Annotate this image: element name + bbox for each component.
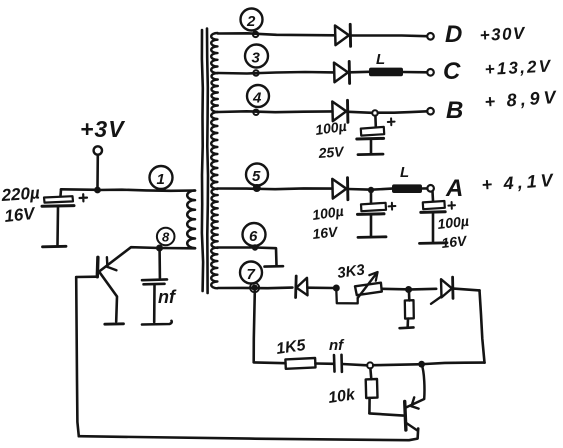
transformer T1 secondary winding [211, 33, 217, 73]
terminal A [427, 185, 434, 192]
wire node to diode D6 [412, 287, 436, 290]
inductor L (row A) [392, 184, 422, 193]
svg-text:1K5: 1K5 [275, 337, 308, 358]
pin label 8 [157, 228, 175, 246]
junction node +3V [94, 187, 101, 194]
svg-text:D: D [445, 21, 462, 48]
diode (row C) [334, 63, 348, 83]
resistor 10k lead [369, 369, 372, 380]
terminal C [427, 69, 434, 76]
svg-text:+ 8,9V: + 8,9V [484, 87, 560, 112]
pin label 3 [245, 45, 268, 68]
wire nf cap to ground [153, 285, 156, 322]
wire pin6 stub [218, 248, 277, 266]
junction pot left [333, 285, 340, 292]
diode D6 [441, 279, 452, 297]
resistor 10k body [366, 379, 378, 398]
pin label 6 [243, 223, 266, 246]
node B junction [372, 110, 378, 116]
ground (cap A1) [358, 235, 386, 238]
transformer T1 core [202, 30, 203, 291]
diode D5 (cathode left) [294, 276, 297, 298]
svg-text:16V: 16V [3, 204, 37, 226]
wire pin2 to diode D [218, 33, 335, 35]
capacitor A2 plate- [421, 210, 445, 214]
svg-text:100µ: 100µ [314, 118, 347, 138]
wire inductor C to terminal [403, 71, 427, 74]
transformer T1 primary winding [187, 191, 195, 249]
pin 5 tap dot [254, 185, 260, 191]
svg-text:3: 3 [252, 50, 261, 67]
wire cap A1 to ground [370, 215, 373, 236]
svg-text:220µ: 220µ [0, 183, 41, 205]
svg-text:+30V: +30V [479, 24, 526, 45]
stub end bar (pin 6) [265, 265, 284, 268]
capacitor 100u 25V plate- [357, 137, 384, 141]
junction pin 8 [156, 245, 163, 252]
wire pin8 to Q1 emitter [97, 247, 159, 273]
svg-text:25V: 25V [317, 143, 346, 161]
transistor Q1 emitter arrow [106, 257, 109, 267]
wire D5 to pot [308, 286, 334, 289]
inductor L (row C) [369, 68, 403, 77]
pin 2 tap circle [253, 32, 258, 37]
wire D6 to right corner [454, 289, 480, 291]
junction node E (open) [367, 362, 373, 368]
capacitor A2 plate+ [423, 201, 445, 209]
capacitor 220u plate- [42, 204, 74, 208]
pin label 5 [246, 164, 268, 186]
wire pin5 to diode A [218, 187, 332, 190]
pin 7 junction [251, 284, 257, 290]
svg-text:L: L [376, 51, 385, 68]
capacitor 100u 25V plate+ [361, 127, 384, 136]
pin label 2 [241, 9, 263, 31]
ground (Q1 collector) [105, 322, 124, 325]
capacitor 100u 25V lead [374, 116, 377, 127]
diode (row B) [332, 102, 346, 122]
ground (nf left) [142, 321, 172, 325]
wire diode A to node [348, 188, 368, 191]
svg-text:16V: 16V [312, 223, 340, 242]
svg-text:+13,2V: +13,2V [484, 56, 552, 79]
resistor (below pot) lead2 [406, 319, 409, 327]
svg-text:A: A [445, 175, 463, 202]
transistor Q1 collector [99, 272, 117, 322]
pin label 7 [240, 262, 262, 284]
wire diode B to node [349, 112, 372, 113]
wire bottom rail [79, 429, 418, 441]
wire 220u to ground [56, 207, 59, 245]
ground (below pot) [400, 326, 414, 329]
capacitor 220u plate+ [44, 196, 73, 202]
pin label 4 [247, 85, 269, 107]
svg-text:1: 1 [157, 171, 165, 188]
capacitor A1 polarity + [389, 203, 396, 210]
potentiometer 3K3 wiper loop [336, 290, 357, 304]
wire node B to terminal [378, 111, 427, 112]
ground (220u) [43, 245, 67, 248]
junction node F [418, 361, 425, 368]
pin 3 tap circle [253, 70, 258, 75]
capacitor 100u 16V (A2) lead [431, 192, 434, 201]
resistor 1K5 body [285, 358, 315, 369]
capacitor nf (left) lead [158, 251, 161, 278]
transistor Q2 collector wire [406, 364, 424, 407]
terminal +3V [94, 146, 102, 154]
svg-text:B: B [446, 97, 463, 124]
wire right vertical [480, 290, 485, 362]
wire diode D to terminal [352, 34, 427, 37]
capacitor nf (bottom) plates [333, 355, 336, 372]
capacitor nf (left) plate1 [142, 278, 167, 281]
transistor Q2 bar [405, 402, 406, 431]
resistor (below pot) body [405, 300, 414, 318]
wire node E to node F [373, 363, 418, 367]
svg-text:6: 6 [249, 228, 258, 245]
svg-text:3K3: 3K3 [336, 261, 366, 282]
svg-text:+3V: +3V [80, 116, 125, 142]
capacitor 220u polarity + [80, 194, 88, 201]
svg-text:2: 2 [246, 13, 256, 30]
svg-text:nf: nf [158, 287, 177, 307]
svg-text:4: 4 [252, 90, 262, 107]
resistor (below pot) lead [408, 292, 411, 300]
capacitor nf (left) plate2 [144, 282, 165, 285]
wire pin7 to diode D5 [218, 286, 292, 289]
capacitor 220u lead [59, 190, 62, 197]
svg-text:L: L [400, 164, 409, 181]
wire node to 220u cap [61, 188, 98, 191]
terminal B [427, 108, 434, 115]
wire inductor A to terminal [422, 187, 427, 190]
wire pot to node [382, 287, 405, 290]
wire cap to node E [342, 364, 367, 365]
capacitor A2 polarity + [448, 202, 455, 209]
wire cap A2 to ground [432, 213, 435, 242]
svg-text:10k: 10k [327, 386, 357, 407]
pin 6 tap dot [252, 244, 258, 250]
wire node A to inductor [371, 189, 392, 190]
svg-text:100µ: 100µ [437, 213, 470, 232]
diode (row D) [335, 26, 349, 46]
svg-text:nf: nf [329, 337, 345, 354]
ground (cap A2) [420, 241, 448, 244]
junction resistor top [405, 286, 412, 293]
svg-text:C: C [443, 58, 461, 85]
svg-text:7: 7 [247, 266, 256, 283]
svg-text:8: 8 [162, 230, 170, 245]
wire pin3 to diode C [218, 72, 334, 74]
wire node to transformer pin1 [98, 190, 196, 191]
transistor Q1 bar [96, 257, 100, 277]
wire 1K5 to cap nf [316, 362, 334, 365]
transistor Q1 base wire [76, 275, 97, 278]
diode (row A) [332, 179, 346, 199]
wire left rail [76, 277, 79, 436]
pin 4 tap circle [253, 110, 258, 115]
capacitor A1 plate+ [361, 203, 386, 211]
transistor Q2 emitter [406, 423, 418, 431]
wire cap B to ground [370, 141, 373, 154]
ground (cap B) [358, 153, 383, 156]
transistor Q2 collector arrow [411, 397, 414, 406]
pin label 1 [150, 166, 173, 189]
svg-text:100µ: 100µ [311, 203, 344, 223]
wire pin7 down [254, 292, 255, 363]
wire pin4 to diode B [218, 110, 332, 113]
wire pin8 to primary [160, 247, 196, 250]
wire diode C to inductor [351, 71, 370, 74]
wire 10k to Q2 base [369, 413, 403, 415]
potentiometer 3K3 body [355, 283, 382, 296]
wire node F to right corner [425, 363, 485, 364]
wire +3V to node [96, 155, 99, 187]
capacitor 100u 16V (A1) lead [370, 193, 373, 202]
node A junction [368, 187, 374, 193]
svg-text:+ 4,1V: + 4,1V [481, 170, 557, 195]
svg-text:5: 5 [252, 168, 261, 185]
capacitor 100u 25V polarity + [388, 118, 395, 125]
resistor 10k lead2 [368, 398, 371, 413]
capacitor A1 plate- [358, 212, 385, 216]
potentiometer 3K3 arrow [358, 272, 378, 298]
wire to 1K5 [254, 361, 286, 364]
terminal D [427, 33, 434, 40]
